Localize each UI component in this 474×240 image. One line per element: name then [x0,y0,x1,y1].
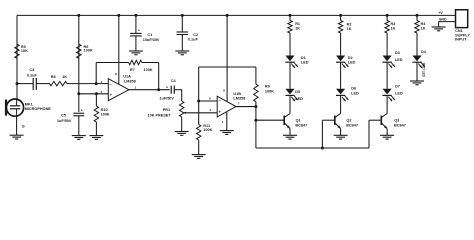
svg-text:LED: LED [395,91,403,95]
svg-text:+: + [138,28,140,32]
svg-text:BC847: BC847 [346,124,358,128]
svg-text:BC847: BC847 [295,124,307,128]
svg-text:RED LED: RED LED [422,63,426,78]
svg-text:C2: C2 [193,33,198,37]
svg-text:Q2: Q2 [346,119,351,123]
svg-text:C5: C5 [61,113,66,117]
svg-text:INPUT: INPUT [455,38,467,42]
svg-text:LED: LED [395,58,403,62]
svg-text:100K: 100K [101,113,110,117]
svg-text:Q3: Q3 [394,119,399,123]
svg-text:MICROPHONE: MICROPHONE [25,107,52,111]
svg-text:7: 7 [238,102,240,106]
svg-text:Q1: Q1 [296,119,301,123]
svg-text:1K: 1K [295,26,300,30]
svg-text:MK1: MK1 [25,103,33,107]
svg-text:1uF/50V: 1uF/50V [57,119,72,123]
svg-text:R2: R2 [347,22,352,26]
svg-text:G: G [22,124,25,128]
svg-text:3: 3 [101,90,103,94]
svg-text:C1: C1 [147,33,152,37]
svg-text:2: 2 [101,80,103,84]
svg-text:100K: 100K [265,90,274,94]
svg-text:1: 1 [135,86,137,90]
svg-text:D7: D7 [395,85,400,89]
svg-text:R7: R7 [130,68,135,72]
svg-text:5: 5 [210,108,212,112]
svg-text:BC847: BC847 [394,124,406,128]
svg-text:D5: D5 [295,90,300,94]
svg-text:1K: 1K [347,27,352,31]
svg-text:GND: GND [439,17,447,21]
svg-text:LED: LED [351,92,359,96]
svg-text:LM358: LM358 [124,80,136,84]
svg-text:10K: 10K [21,49,28,53]
svg-text:R1: R1 [295,22,300,26]
svg-text:1K: 1K [62,75,67,79]
svg-text:R9: R9 [265,85,270,89]
svg-text:U1B: U1B [233,92,241,96]
svg-text:4: 4 [222,120,224,124]
svg-text:1uF/50V: 1uF/50V [159,96,174,100]
svg-text:100K: 100K [144,68,153,72]
svg-text:D6: D6 [351,87,356,91]
svg-text:PR1: PR1 [163,108,170,112]
svg-text:LED: LED [301,60,309,64]
svg-text:R10: R10 [101,108,108,112]
svg-text:100K: 100K [203,128,212,132]
svg-text:8: 8 [115,72,117,76]
svg-text:+V: +V [438,11,443,15]
svg-text:R8: R8 [51,75,56,79]
svg-text:0.1uF: 0.1uF [188,38,199,42]
svg-text:100K: 100K [84,49,93,53]
svg-text:10uF/35V: 10uF/35V [143,38,160,42]
svg-text:D2: D2 [348,56,353,60]
svg-text:LED: LED [295,97,303,101]
svg-text:6: 6 [209,96,211,100]
svg-text:8: 8 [223,88,225,92]
svg-text:10K PRESET: 10K PRESET [148,113,172,117]
svg-text:1K: 1K [421,26,426,30]
svg-text:D1: D1 [301,56,306,60]
svg-text:C3: C3 [29,68,34,72]
svg-text:D3: D3 [395,51,400,55]
svg-text:0.1uF: 0.1uF [27,74,38,78]
svg-text:LM358: LM358 [233,96,245,100]
svg-text:LED: LED [348,60,356,64]
svg-text:R3: R3 [391,22,396,26]
svg-text:+: + [81,108,83,112]
svg-text:+: + [166,85,168,89]
svg-text:1K: 1K [391,26,396,30]
svg-text:U1A: U1A [123,74,131,78]
